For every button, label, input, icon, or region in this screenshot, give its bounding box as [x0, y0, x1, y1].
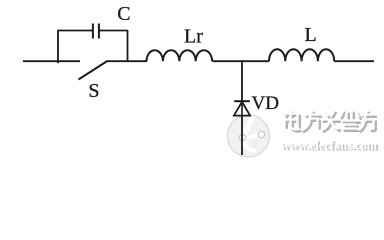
wire: left lead [23, 60, 80, 62]
node: VD branch junction [241, 60, 243, 62]
wire: VD branch lower [241, 116, 243, 155]
svg-text:L: L [305, 24, 317, 46]
wire: Lr to node [213, 60, 243, 62]
watermark url www.elecfans.com [281, 138, 380, 154]
inductor Lr [147, 50, 213, 61]
wire: cap branch top right [100, 30, 128, 32]
diode VD [234, 101, 250, 115]
wire: right lead [334, 60, 374, 62]
wire: cap branch left riser [57, 31, 59, 64]
svg-text:VD: VD [252, 93, 279, 114]
inductor L [269, 49, 334, 61]
watermark text dianzifashaoyou [285, 111, 376, 132]
switch S [79, 62, 107, 80]
wire: cap branch right riser [127, 30, 129, 62]
wire: VD branch upper [241, 61, 243, 101]
wire: VD branch through diode [241, 101, 243, 116]
watermark logo [228, 115, 270, 157]
svg-text:S: S [88, 80, 99, 102]
svg-text:Lr: Lr [184, 25, 203, 47]
wire: switch to Lr [106, 60, 147, 62]
wire: cap branch top left [57, 30, 92, 32]
capacitor C [93, 24, 99, 39]
svg-text:www.elecfans.com: www.elecfans.com [281, 138, 378, 152]
svg-text:C: C [117, 3, 130, 25]
wire: node to L [242, 60, 269, 62]
